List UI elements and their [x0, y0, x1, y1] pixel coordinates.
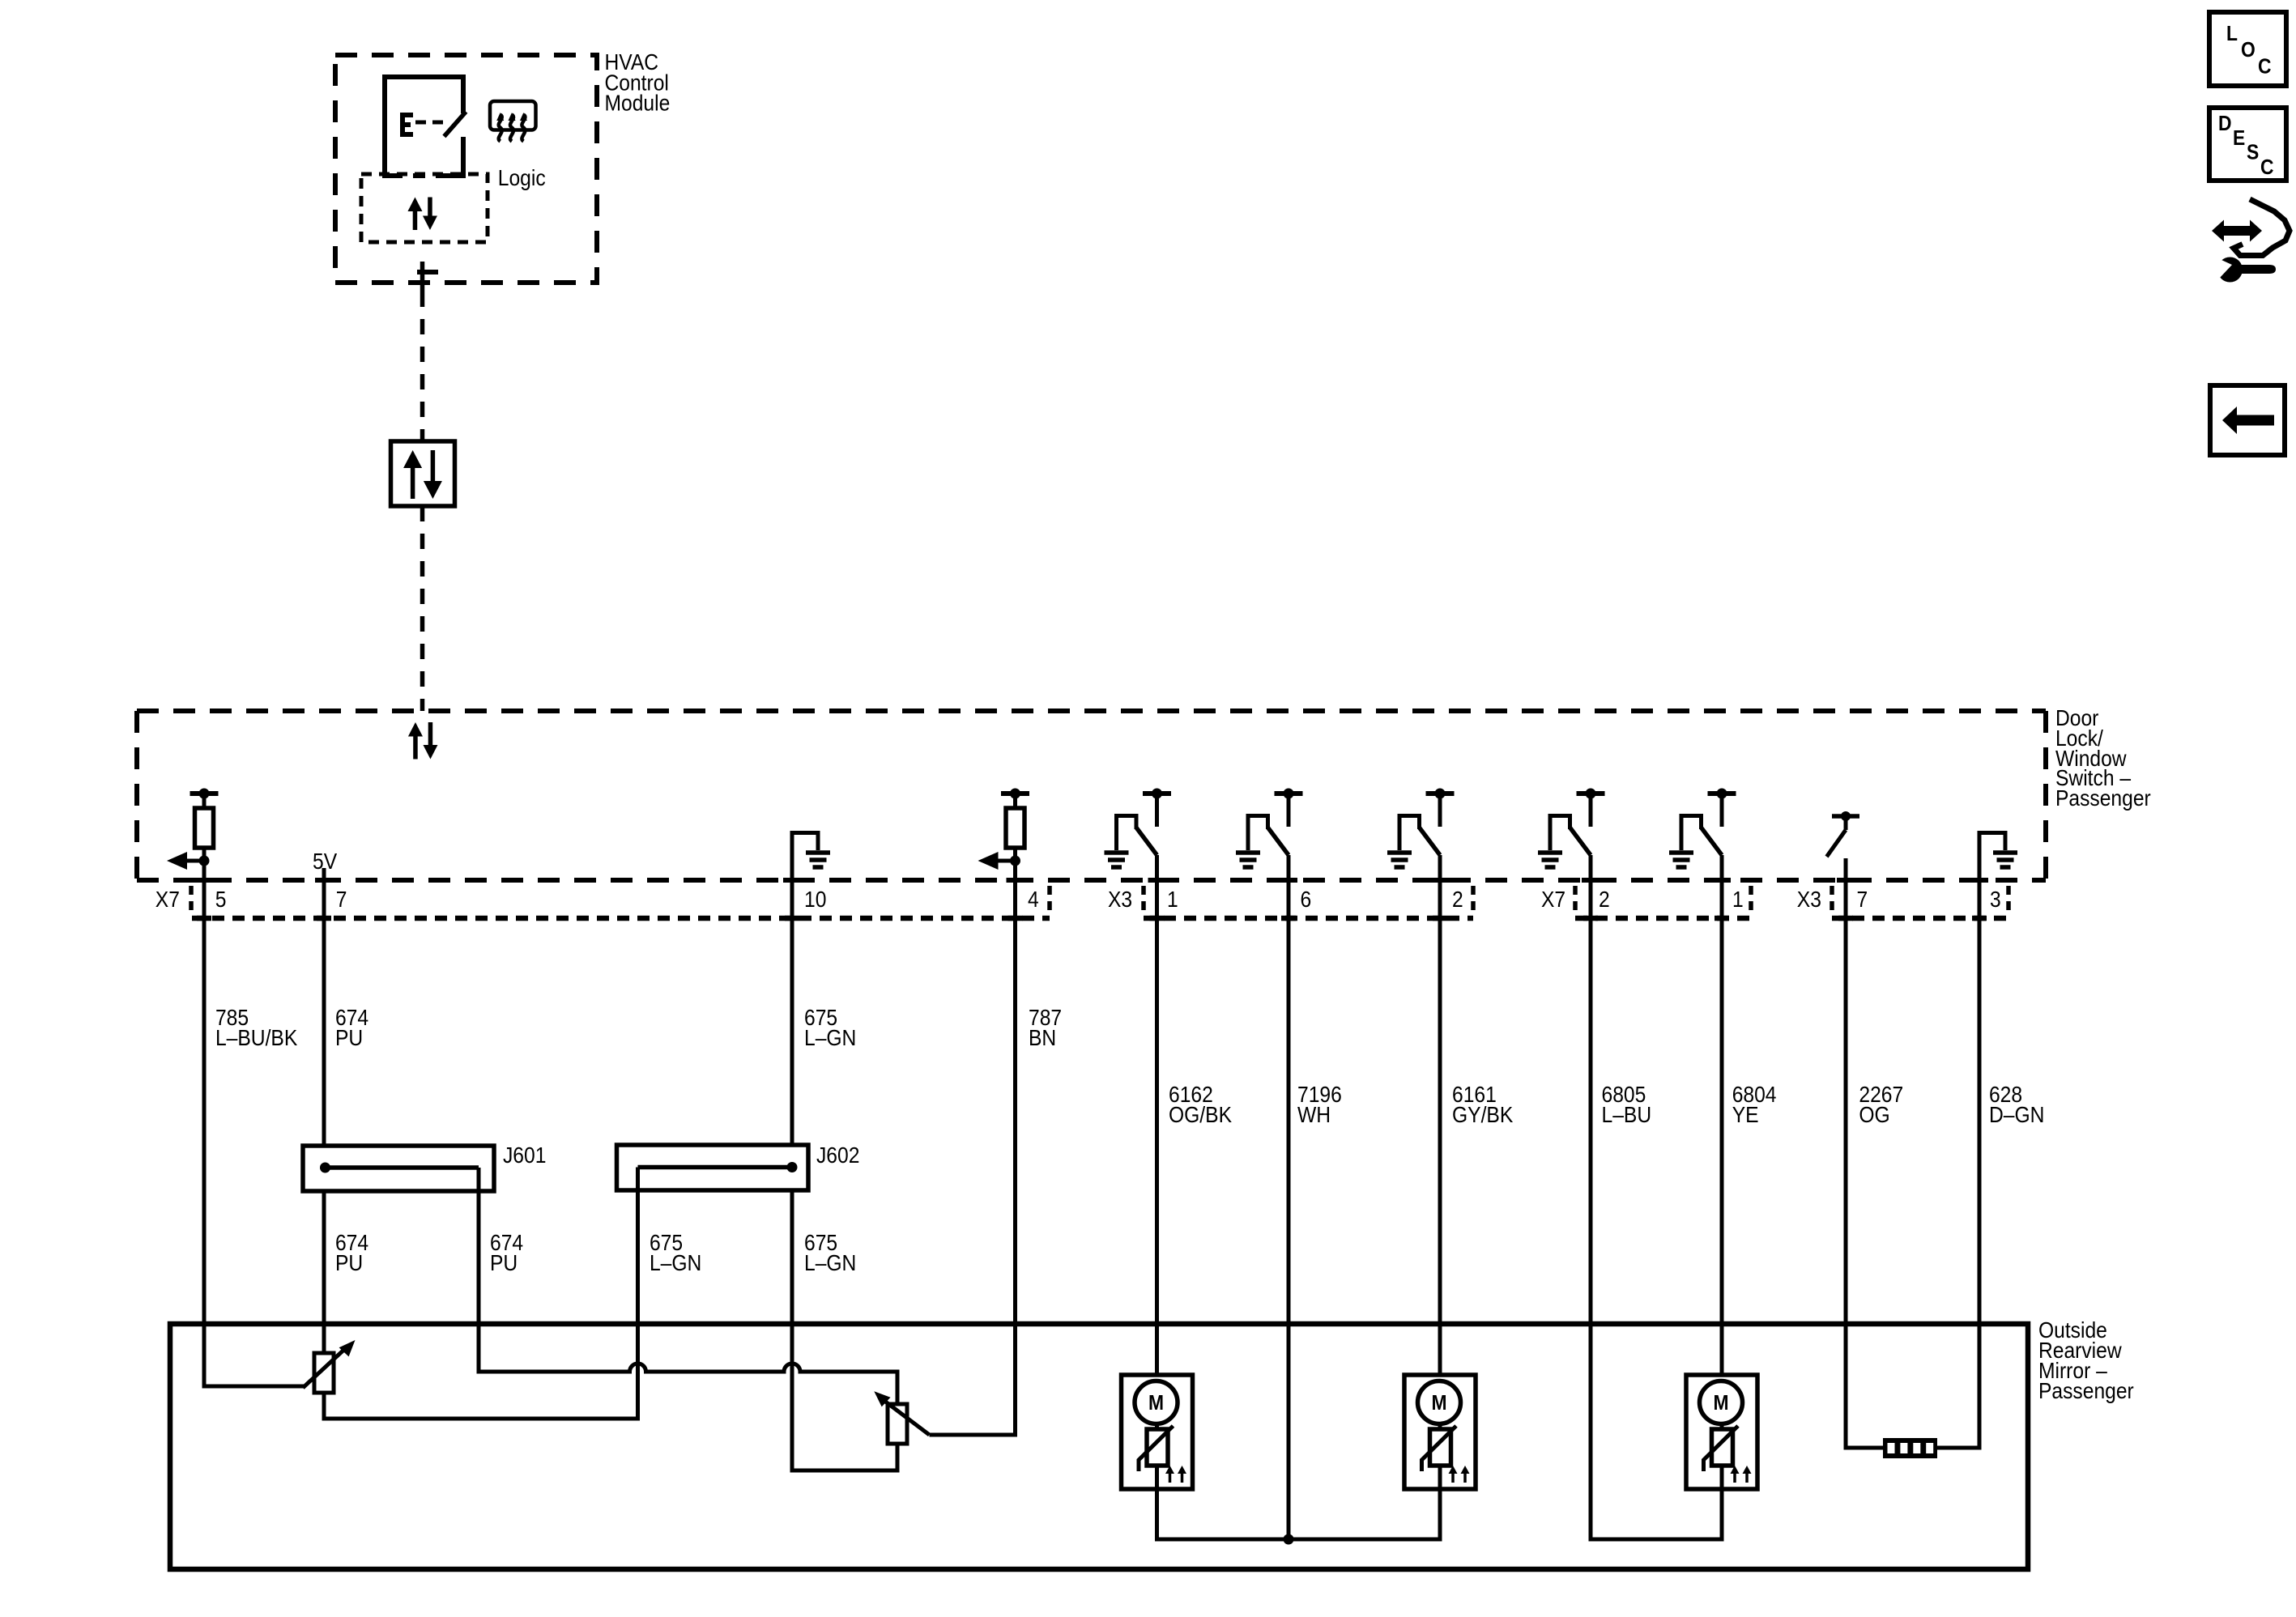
connector tabs on harness connector line — [197, 916, 1987, 921]
wire 6162 label — [1169, 1082, 1232, 1128]
svg-text:X3: X3 — [1797, 887, 1821, 913]
serial data arrows in logic box — [407, 198, 437, 231]
wire 787 label — [1029, 1005, 1062, 1051]
wire 6804 label — [1732, 1082, 1777, 1128]
wire 675 lower-right label — [804, 1230, 856, 1276]
svg-text:L–BU: L–BU — [1602, 1102, 1652, 1128]
DESC icon box — [2209, 108, 2286, 181]
wire 6161 label — [1452, 1082, 1514, 1128]
harness connector X3 dotted line — [1144, 916, 1473, 921]
Outside Rearview Mirror - Passenger label — [2038, 1317, 2134, 1404]
motor M1 (mirror horizontal) — [1122, 1375, 1193, 1489]
svg-text:2: 2 — [1599, 887, 1610, 913]
harness connector X7 dotted line — [192, 916, 1050, 921]
motor M2 (mirror vertical) — [1404, 1375, 1476, 1489]
wire 674 lower-right label — [490, 1230, 523, 1276]
wire 674 PU (J601 left, to pot) — [322, 1191, 326, 1353]
switch X7-1 (fold) — [1669, 789, 1736, 868]
svg-text:D: D — [2218, 113, 2232, 136]
serial data arrows inside switch — [408, 722, 438, 760]
switch X3-7 (heater) — [1827, 811, 1860, 857]
svg-text:D–GN: D–GN — [1989, 1102, 2044, 1128]
switch X7-2 (fold) — [1538, 789, 1605, 868]
wire 6161 GY/BK — [1438, 855, 1442, 1375]
svg-text:L–GN: L–GN — [650, 1250, 701, 1276]
wire 7196 label — [1297, 1082, 1342, 1128]
svg-text:5: 5 — [215, 887, 227, 913]
svg-text:GY/BK: GY/BK — [1452, 1102, 1514, 1128]
J602 label — [816, 1143, 859, 1168]
HVAC Control Module outline (dashed box) — [335, 55, 597, 283]
Logic label — [498, 165, 546, 191]
svg-text:6: 6 — [1300, 887, 1311, 913]
resistor pull-up pin 4 — [978, 789, 1030, 881]
svg-text:L–BU/BK: L–BU/BK — [215, 1025, 298, 1051]
svg-text:C: C — [2260, 156, 2274, 180]
Door Lock/Window Switch box bottom edge — [137, 878, 2046, 883]
potentiometer (vertical position sensor) — [874, 1391, 929, 1444]
switch X3-2 (mirror down/right) — [1387, 789, 1455, 868]
ground pin 3 — [1979, 833, 2017, 881]
svg-text:OG: OG — [1859, 1102, 1889, 1128]
wire 785 L-BU/BK — [204, 848, 305, 1386]
harness connector X7b dotted line — [1575, 916, 1751, 921]
wire 628 D-GN — [1937, 833, 1979, 1449]
svg-text:OG/BK: OG/BK — [1169, 1102, 1232, 1128]
connector tabs on switch box edge — [195, 878, 1988, 883]
svg-text:BN: BN — [1029, 1025, 1056, 1051]
wire 6162 OG/BK — [1155, 855, 1159, 1375]
wire 6805 label — [1602, 1082, 1652, 1128]
wire 2267 label — [1859, 1082, 1903, 1128]
svg-text:X3: X3 — [1108, 887, 1132, 913]
wire motor common to 7196 — [1157, 1489, 1441, 1545]
harness connector X3b dotted line — [1832, 916, 2012, 921]
defroster indicator icon — [490, 101, 536, 142]
svg-text:2: 2 — [1452, 887, 1463, 913]
wire 7196 WH — [1287, 855, 1291, 1539]
connector separator at x=1296 — [1047, 886, 1052, 913]
wire 674 PU (pin7) — [322, 868, 326, 1353]
svg-text:7: 7 — [1856, 887, 1868, 913]
wire 674 label — [335, 1005, 368, 1051]
dashed serial data wire (module to gateway) — [420, 291, 425, 441]
svg-text:C: C — [2258, 55, 2272, 79]
svg-text:L–GN: L–GN — [804, 1250, 856, 1276]
Door Lock/Window Switch - Passenger label — [2055, 705, 2151, 811]
motor M3 (mirror fold) — [1686, 1375, 1757, 1489]
svg-text:X7: X7 — [155, 887, 180, 913]
serial data arrows in gateway box — [403, 450, 442, 499]
svg-text:M: M — [1148, 1392, 1164, 1415]
svg-text:Passenger: Passenger — [2055, 785, 2151, 811]
diagnostic icon wrench — [2213, 256, 2276, 283]
diagnostic icon outline — [2234, 199, 2290, 256]
svg-text:3: 3 — [1990, 887, 2001, 913]
connector separator at x=236 — [189, 886, 194, 913]
resistor pull-up pin 5 — [167, 789, 219, 881]
wire 6805 L-BU — [1591, 855, 1722, 1539]
wire 6804 YE — [1720, 855, 1724, 1375]
LOC icon letters — [2226, 23, 2272, 79]
Door Lock/Window Switch box left edge — [134, 711, 139, 880]
connector pin labels — [155, 887, 2001, 913]
svg-text:7: 7 — [336, 887, 347, 913]
connector separator at x=2480 — [2006, 886, 2011, 913]
HVAC Control Module label — [605, 49, 671, 116]
Outside Rearview Mirror box — [170, 1324, 2028, 1569]
HVAC driver dashed control link — [415, 121, 444, 125]
wire 675 L-GN (pin10) — [792, 833, 897, 1471]
Door Lock/Window Switch box right edge — [2043, 711, 2048, 880]
wire 2267 OG — [1846, 858, 1883, 1448]
svg-text:PU: PU — [335, 1250, 363, 1276]
svg-text:Passenger: Passenger — [2038, 1378, 2134, 1404]
svg-text:10: 10 — [804, 887, 826, 913]
svg-text:WH: WH — [1297, 1102, 1331, 1128]
wire 675 lower-left label — [650, 1230, 701, 1276]
back arrow icon box — [2210, 385, 2285, 455]
mirror heater element — [1883, 1438, 1937, 1458]
wire 785 label — [215, 1005, 298, 1051]
LOC icon box — [2209, 12, 2286, 86]
svg-text:PU: PU — [335, 1025, 363, 1051]
5V label — [313, 849, 338, 874]
svg-text:L: L — [2226, 23, 2238, 46]
dashed serial data wire (gateway to switch) — [420, 506, 425, 711]
back arrow — [2222, 406, 2274, 434]
wire 675 L-GN (J602 left) — [324, 1168, 638, 1419]
connector separator at x=2162 — [1749, 886, 1753, 913]
svg-text:O: O — [2241, 39, 2256, 62]
Door Lock/Window Switch box top edge — [137, 709, 2046, 713]
connector separator at x=1945 — [1573, 886, 1578, 913]
svg-text:Module: Module — [605, 90, 671, 116]
wire 674 PU (J601 right) with hops — [479, 1168, 897, 1404]
ground pin 10 — [792, 833, 830, 881]
wire 674 lower-left label — [335, 1230, 368, 1276]
svg-text:E: E — [2233, 127, 2245, 151]
connector separator at x=1412 — [1141, 886, 1146, 913]
svg-text:1: 1 — [1732, 887, 1744, 913]
J601 label — [503, 1143, 546, 1168]
svg-text:Logic: Logic — [498, 165, 546, 191]
svg-text:L–GN: L–GN — [804, 1025, 856, 1051]
diagnostic icon double arrow — [2212, 220, 2262, 242]
HVAC driver switch blade — [444, 112, 466, 137]
switch pin 6 (common) — [1236, 789, 1303, 868]
connector separator at x=1819 — [1471, 886, 1476, 913]
svg-text:M: M — [1713, 1392, 1728, 1415]
connector separator at x=2262 — [1830, 886, 1834, 913]
switch X3-1 (mirror up/left) — [1105, 789, 1172, 868]
serial data stub with T-bar below logic box — [417, 262, 438, 291]
HVAC driver E label — [400, 113, 413, 137]
svg-text:YE: YE — [1732, 1102, 1759, 1128]
svg-text:M: M — [1431, 1392, 1446, 1415]
wire 787 BN (pin4) — [930, 848, 1016, 1435]
svg-text:1: 1 — [1167, 887, 1178, 913]
svg-text:S: S — [2247, 141, 2259, 164]
potentiometer (horizontal position sensor) — [303, 1340, 356, 1393]
svg-text:J601: J601 — [503, 1143, 546, 1168]
wire pot1 bottom — [322, 1394, 326, 1419]
splice pack J601 — [303, 1146, 494, 1191]
wire 675 label — [804, 1005, 856, 1051]
svg-text:4: 4 — [1028, 887, 1039, 913]
svg-text:X7: X7 — [1541, 887, 1565, 913]
wire 628 label — [1989, 1082, 2044, 1128]
logic box (dashed) — [361, 174, 488, 242]
svg-text:J602: J602 — [816, 1143, 859, 1168]
HVAC driver switch box — [385, 77, 463, 176]
splice pack J602 — [617, 1145, 809, 1190]
DESC icon letters — [2218, 113, 2274, 180]
serial data gateway box — [391, 441, 455, 506]
svg-text:PU: PU — [490, 1250, 518, 1276]
